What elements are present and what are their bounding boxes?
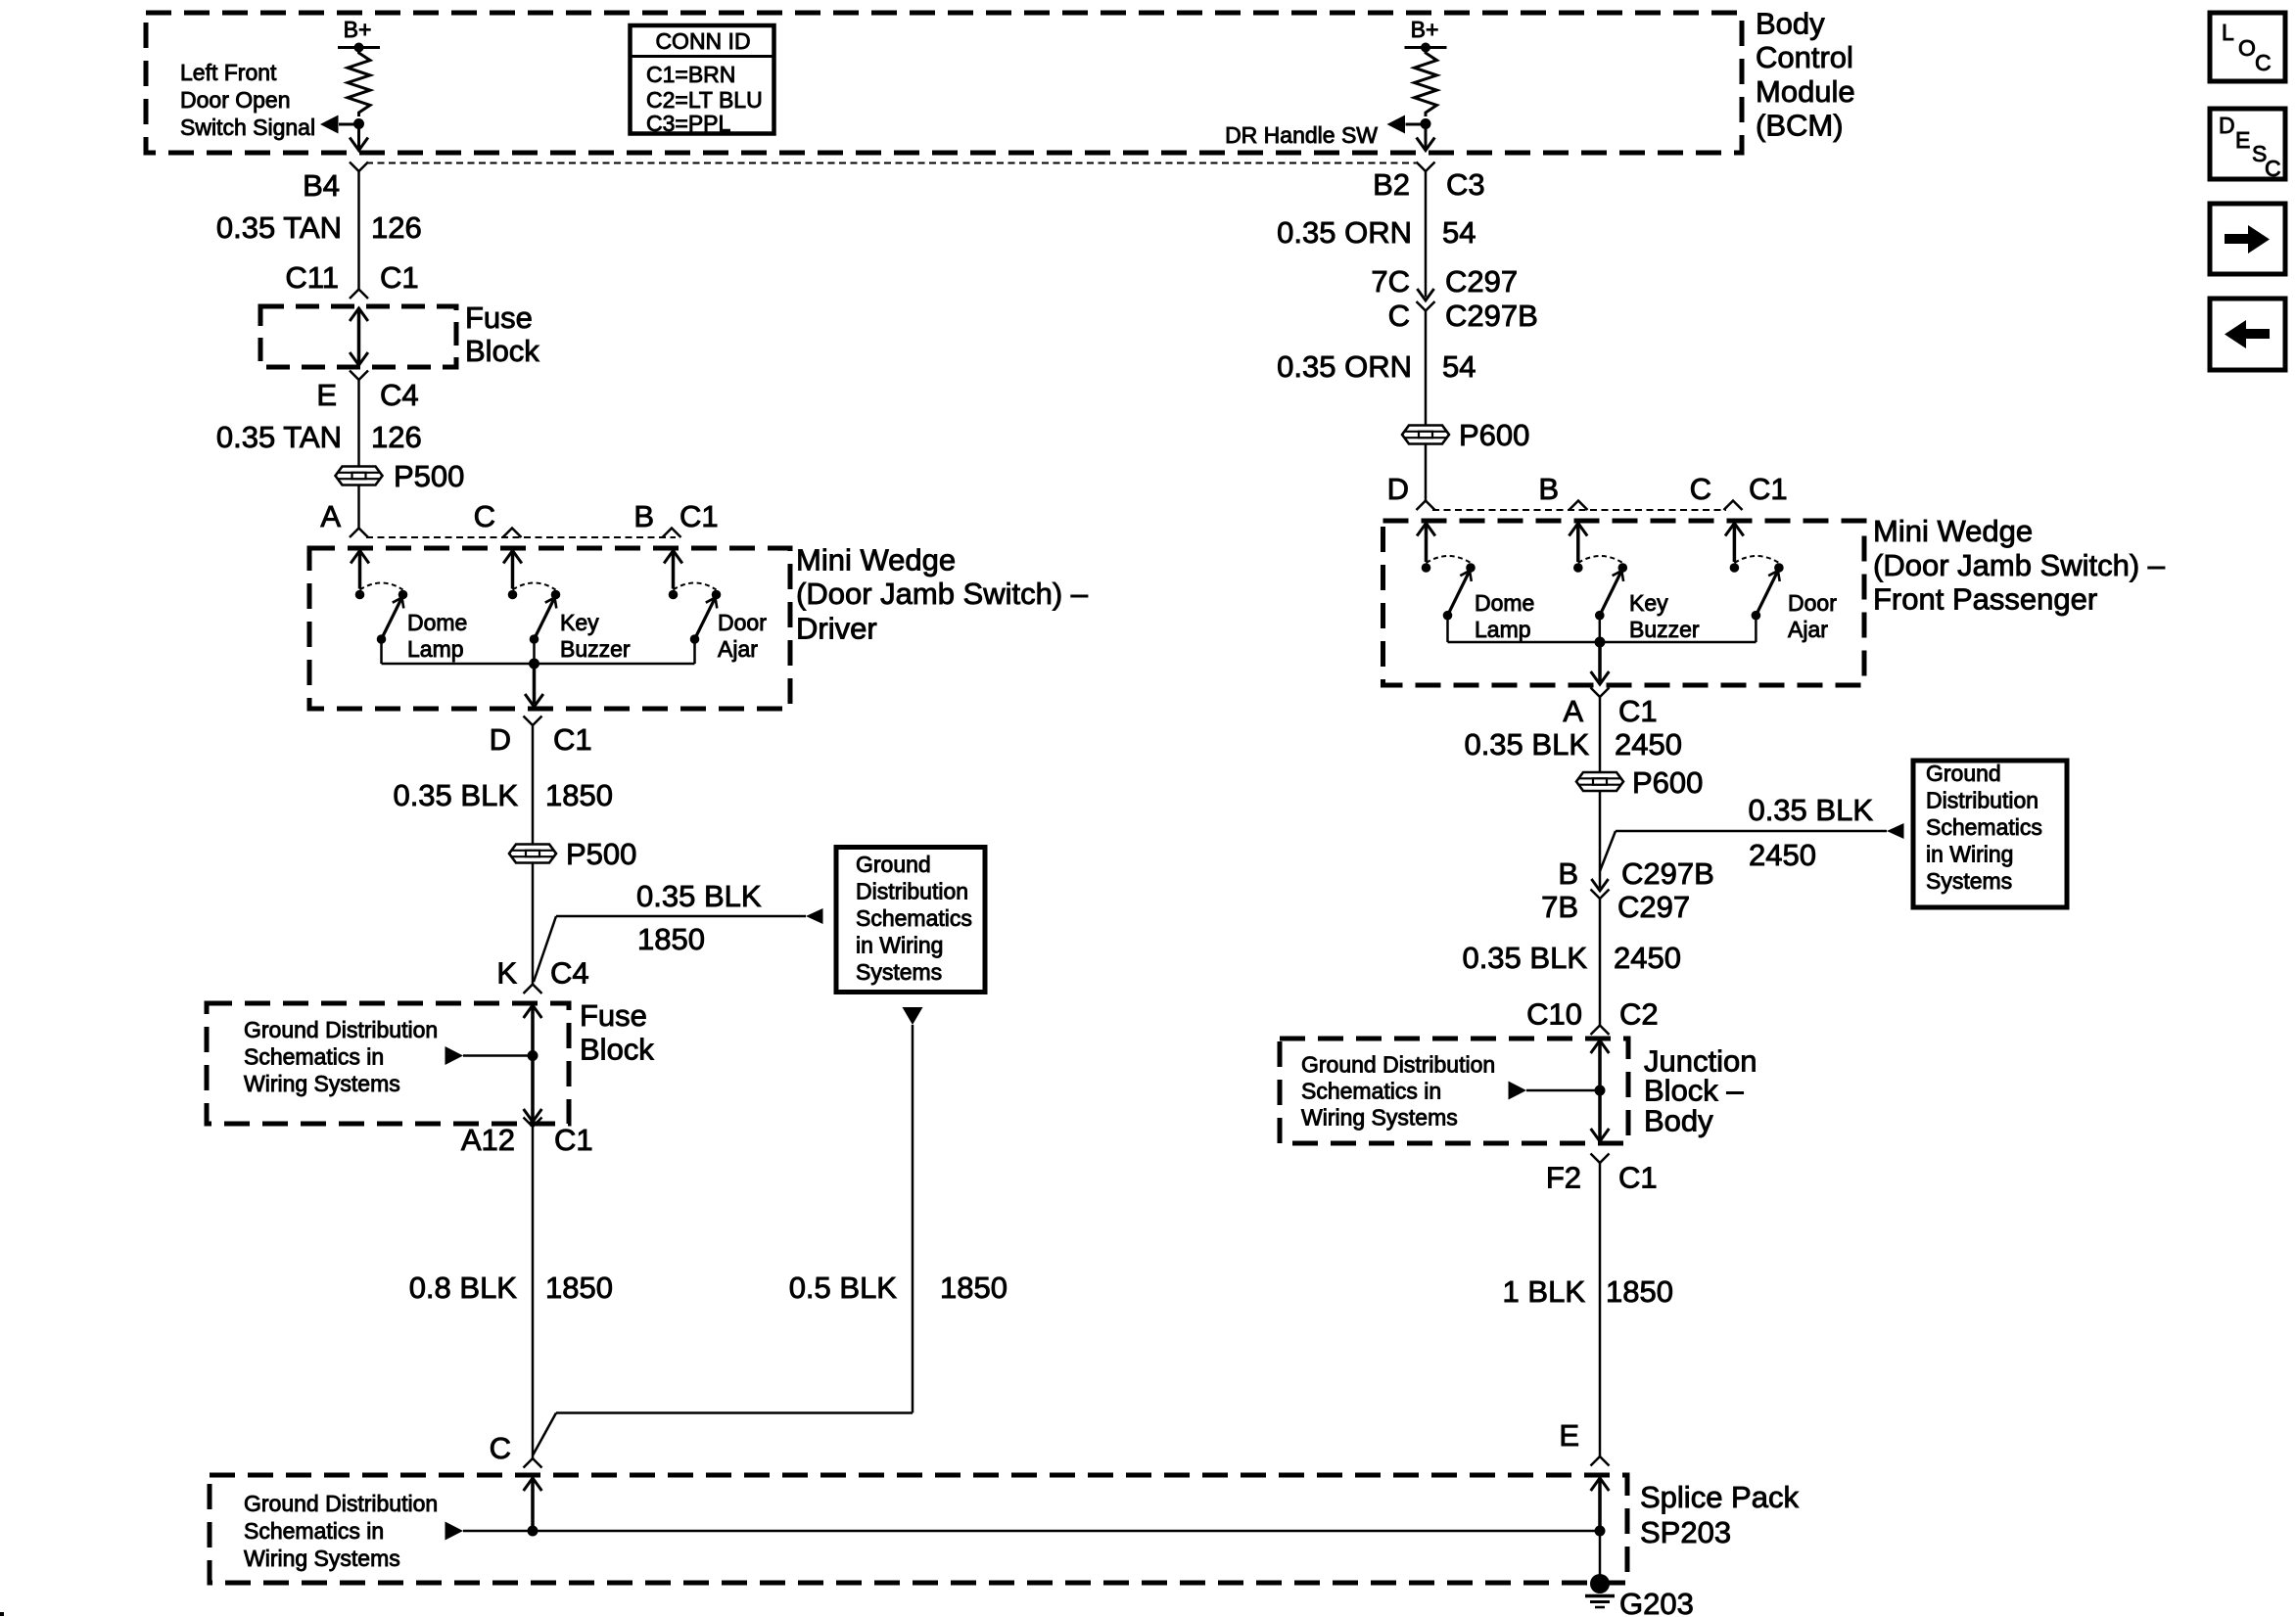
svg-text:Schematics in: Schematics in bbox=[1301, 1079, 1441, 1104]
svg-text:L: L bbox=[2222, 20, 2234, 45]
svg-text:0.35 BLK: 0.35 BLK bbox=[636, 879, 762, 913]
svg-text:(BCM): (BCM) bbox=[1756, 109, 1844, 143]
svg-text:2450: 2450 bbox=[1614, 941, 1681, 975]
svg-text:2450: 2450 bbox=[1615, 727, 1682, 762]
svg-text:B2: B2 bbox=[1373, 167, 1410, 202]
svg-text:C297: C297 bbox=[1445, 264, 1518, 299]
svg-text:in Wiring: in Wiring bbox=[1926, 842, 2013, 867]
svg-text:7B: 7B bbox=[1541, 890, 1578, 924]
svg-text:C297B: C297B bbox=[1621, 856, 1714, 891]
svg-text:C297B: C297B bbox=[1445, 299, 1538, 333]
svg-text:A: A bbox=[1563, 694, 1583, 728]
svg-text:1850: 1850 bbox=[1606, 1274, 1673, 1309]
svg-text:0.35 ORN: 0.35 ORN bbox=[1277, 215, 1412, 250]
svg-text:D: D bbox=[1387, 472, 1409, 506]
svg-text:C2=LT BLU: C2=LT BLU bbox=[646, 87, 763, 113]
svg-text:Door Open: Door Open bbox=[180, 87, 291, 113]
svg-text:C10: C10 bbox=[1526, 997, 1582, 1032]
svg-text:D: D bbox=[490, 722, 511, 757]
svg-text:C1: C1 bbox=[554, 1123, 593, 1157]
svg-text:Fuse: Fuse bbox=[580, 998, 647, 1033]
svg-text:Block: Block bbox=[580, 1033, 654, 1067]
svg-text:F2: F2 bbox=[1546, 1161, 1581, 1195]
svg-text:B+: B+ bbox=[344, 17, 372, 42]
svg-text:CONN ID: CONN ID bbox=[655, 28, 750, 54]
svg-text:P500: P500 bbox=[394, 459, 464, 493]
svg-text:C1: C1 bbox=[1618, 694, 1658, 728]
svg-text:in Wiring: in Wiring bbox=[856, 933, 943, 958]
svg-text:0.35 BLK: 0.35 BLK bbox=[393, 778, 518, 812]
svg-text:1850: 1850 bbox=[940, 1270, 1007, 1305]
svg-text:1850: 1850 bbox=[637, 922, 705, 956]
svg-text:126: 126 bbox=[371, 420, 422, 454]
svg-text:B: B bbox=[1538, 472, 1559, 506]
svg-text:1 BLK: 1 BLK bbox=[1503, 1274, 1586, 1309]
svg-text:Splice Pack: Splice Pack bbox=[1640, 1480, 1799, 1514]
svg-text:Block –: Block – bbox=[1644, 1074, 1744, 1108]
svg-text:Key: Key bbox=[560, 610, 599, 635]
svg-text:C: C bbox=[474, 499, 495, 533]
svg-text:1850: 1850 bbox=[545, 1270, 613, 1305]
svg-text:Ajar: Ajar bbox=[718, 636, 758, 662]
svg-text:C1: C1 bbox=[679, 499, 719, 533]
svg-text:Buzzer: Buzzer bbox=[560, 636, 631, 662]
svg-text:C1: C1 bbox=[380, 260, 419, 295]
svg-text:Key: Key bbox=[1629, 590, 1668, 616]
svg-text:0.8 BLK: 0.8 BLK bbox=[409, 1270, 518, 1305]
svg-text:Systems: Systems bbox=[1926, 868, 2012, 894]
svg-text:C3=PPL: C3=PPL bbox=[646, 111, 731, 136]
svg-text:Door: Door bbox=[718, 610, 767, 635]
svg-text:G203: G203 bbox=[1619, 1587, 1694, 1617]
svg-text:Ground: Ground bbox=[1926, 761, 2001, 786]
svg-text:P500: P500 bbox=[566, 837, 636, 871]
svg-text:A12: A12 bbox=[461, 1123, 515, 1157]
svg-text:1850: 1850 bbox=[545, 778, 613, 812]
svg-text:C11: C11 bbox=[285, 260, 339, 295]
svg-text:Door: Door bbox=[1788, 590, 1837, 616]
svg-text:C: C bbox=[1388, 299, 1410, 333]
svg-text:Dome: Dome bbox=[407, 610, 467, 635]
svg-text:0.5 BLK: 0.5 BLK bbox=[789, 1270, 898, 1305]
svg-text:Wiring Systems: Wiring Systems bbox=[1301, 1105, 1458, 1131]
svg-text:0.35 BLK: 0.35 BLK bbox=[1464, 727, 1589, 762]
svg-text:7C: 7C bbox=[1371, 264, 1410, 299]
svg-text:B4: B4 bbox=[303, 168, 340, 203]
svg-text:E: E bbox=[2235, 127, 2250, 153]
svg-text:C: C bbox=[490, 1431, 511, 1465]
svg-text:C1: C1 bbox=[1749, 472, 1788, 506]
svg-text:C1: C1 bbox=[553, 722, 592, 757]
svg-text:Ground: Ground bbox=[856, 852, 931, 877]
svg-text:126: 126 bbox=[371, 210, 422, 245]
svg-text:Driver: Driver bbox=[796, 612, 877, 646]
svg-text:Distribution: Distribution bbox=[856, 879, 968, 904]
svg-text:DR Handle SW: DR Handle SW bbox=[1225, 122, 1378, 148]
svg-text:0.35 TAN: 0.35 TAN bbox=[216, 210, 342, 245]
svg-text:Ground Distribution: Ground Distribution bbox=[1301, 1052, 1495, 1078]
svg-text:(Door Jamb Switch) –: (Door Jamb Switch) – bbox=[796, 577, 1089, 611]
svg-text:0.35 ORN: 0.35 ORN bbox=[1277, 349, 1412, 384]
svg-text:B: B bbox=[633, 499, 654, 533]
svg-text:Body: Body bbox=[1644, 1104, 1713, 1138]
svg-text:Systems: Systems bbox=[856, 959, 942, 985]
svg-text:Block: Block bbox=[465, 334, 539, 368]
svg-text:Dome: Dome bbox=[1475, 590, 1534, 616]
svg-text:Wiring Systems: Wiring Systems bbox=[244, 1071, 400, 1096]
svg-text:P600: P600 bbox=[1459, 418, 1529, 452]
svg-text:A: A bbox=[320, 499, 341, 533]
svg-text:Ground Distribution: Ground Distribution bbox=[244, 1491, 438, 1516]
svg-text:Mini Wedge: Mini Wedge bbox=[1873, 514, 2033, 548]
svg-text:C4: C4 bbox=[550, 956, 589, 991]
svg-text:Mini Wedge: Mini Wedge bbox=[796, 543, 956, 577]
svg-text:Lamp: Lamp bbox=[1475, 617, 1531, 642]
svg-text:B: B bbox=[1558, 856, 1578, 891]
svg-text:(Door Jamb Switch) –: (Door Jamb Switch) – bbox=[1873, 548, 2166, 582]
svg-text:0.35 BLK: 0.35 BLK bbox=[1462, 941, 1587, 975]
svg-text:E: E bbox=[1559, 1418, 1579, 1453]
svg-text:Module: Module bbox=[1756, 74, 1855, 109]
svg-text:Schematics in: Schematics in bbox=[244, 1044, 384, 1070]
svg-text:C: C bbox=[2255, 50, 2272, 75]
svg-text:C: C bbox=[2265, 156, 2281, 181]
svg-text:C2: C2 bbox=[1619, 997, 1659, 1032]
svg-text:Lamp: Lamp bbox=[407, 636, 464, 662]
svg-text:C4: C4 bbox=[380, 378, 419, 412]
svg-text:54: 54 bbox=[1442, 349, 1476, 384]
svg-text:P600: P600 bbox=[1632, 765, 1703, 800]
svg-text:Wiring Systems: Wiring Systems bbox=[244, 1546, 400, 1571]
svg-text:C1: C1 bbox=[1618, 1161, 1658, 1195]
svg-text:C: C bbox=[1690, 472, 1711, 506]
svg-text:Schematics in: Schematics in bbox=[244, 1518, 384, 1544]
svg-text:Ajar: Ajar bbox=[1788, 617, 1828, 642]
svg-text:Schematics: Schematics bbox=[1926, 814, 2042, 840]
svg-text:0.35 TAN: 0.35 TAN bbox=[216, 420, 342, 454]
svg-text:Buzzer: Buzzer bbox=[1629, 617, 1700, 642]
svg-text:E: E bbox=[316, 378, 337, 412]
svg-text:C3: C3 bbox=[1446, 167, 1485, 202]
svg-text:SP203: SP203 bbox=[1640, 1515, 1731, 1549]
svg-text:Ground Distribution: Ground Distribution bbox=[244, 1017, 438, 1042]
svg-text:C297: C297 bbox=[1617, 890, 1690, 924]
svg-text:K: K bbox=[496, 956, 517, 991]
svg-text:Switch Signal: Switch Signal bbox=[180, 115, 315, 140]
svg-text:2450: 2450 bbox=[1749, 838, 1816, 872]
svg-text:Left Front: Left Front bbox=[180, 60, 277, 85]
svg-text:0.35 BLK: 0.35 BLK bbox=[1748, 793, 1873, 827]
svg-text:54: 54 bbox=[1442, 215, 1476, 250]
svg-text:Front Passenger: Front Passenger bbox=[1873, 582, 2097, 617]
svg-text:Control: Control bbox=[1756, 40, 1853, 74]
svg-text:O: O bbox=[2238, 35, 2256, 61]
svg-text:Fuse: Fuse bbox=[465, 300, 533, 335]
svg-text:Schematics: Schematics bbox=[856, 905, 972, 931]
svg-text:D: D bbox=[2219, 113, 2235, 138]
svg-text:Body: Body bbox=[1756, 7, 1825, 41]
svg-text:Distribution: Distribution bbox=[1926, 788, 2038, 813]
svg-text:B+: B+ bbox=[1411, 17, 1439, 42]
svg-text:C1=BRN: C1=BRN bbox=[646, 62, 735, 87]
